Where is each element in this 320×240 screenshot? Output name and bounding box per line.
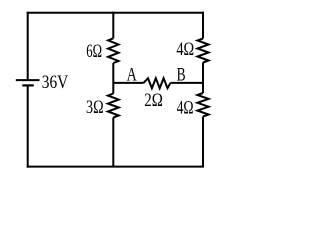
resistor 4ohm top zigzag: [198, 39, 209, 63]
wire middle bottom segment: [112, 118, 114, 167]
wire bottom: [27, 166, 204, 168]
svg-text:B: B: [177, 64, 186, 85]
wire right top segment: [202, 12, 204, 39]
svg-text:2Ω: 2Ω: [144, 90, 163, 111]
wire right bottom segment: [202, 117, 204, 167]
svg-text:36V: 36V: [42, 72, 69, 93]
resistor 6ohm zigzag: [108, 38, 118, 63]
svg-text:3Ω: 3Ω: [86, 97, 104, 118]
svg-text:4Ω: 4Ω: [177, 97, 194, 118]
resistor 4ohm bottom zigzag: [197, 93, 208, 117]
resistor 3ohm zigzag: [108, 94, 119, 118]
battery B1 36V short plate: [22, 84, 34, 86]
wire middle top segment: [112, 12, 114, 39]
wire top: [27, 12, 204, 14]
resistor 2ohm zigzag: [144, 78, 171, 88]
svg-text:6Ω: 6Ω: [86, 41, 102, 62]
wire left upper: [27, 12, 29, 80]
wire node A horizontal segment: [113, 82, 143, 84]
battery B1 36V long plate: [16, 79, 40, 81]
svg-text:4Ω: 4Ω: [176, 39, 194, 60]
wire node B horizontal segment: [171, 82, 204, 84]
svg-text:A: A: [127, 64, 137, 85]
wire right mid segment: [202, 63, 204, 94]
wire middle mid segment: [112, 63, 114, 94]
wire left lower: [27, 85, 29, 167]
